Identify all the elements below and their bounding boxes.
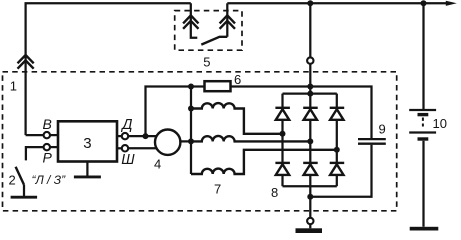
ground bar bottom center	[296, 228, 323, 233]
switch 5 blade (open contact)	[201, 37, 227, 45]
regulator box 3	[58, 121, 117, 161]
wire D to rotor	[128, 135, 156, 137]
connector arrow (double chevron) on left wire	[18, 55, 34, 69]
svg-text:9: 9	[379, 122, 386, 137]
stub to ground	[309, 224, 311, 228]
bridge column 2 wire (output line)	[309, 3, 311, 57]
bridge column 3 wire	[336, 94, 338, 108]
junction dot D riser	[143, 133, 149, 139]
svg-text:В: В	[43, 116, 52, 132]
svg-text:Д: Д	[120, 117, 132, 133]
wire top bus left segment	[26, 3, 191, 135]
diode VD6 (lower, column 3)	[330, 163, 345, 175]
svg-text:“Л / З”: “Л / З”	[32, 173, 67, 187]
terminal Sh circle	[122, 145, 128, 151]
capacitor 9	[358, 139, 386, 144]
stator winding 7 phase 1	[191, 103, 283, 134]
switch 5 left lead with chevron	[191, 3, 198, 37]
stator neutral bus	[190, 87, 192, 175]
junction dot coil 2	[188, 138, 194, 144]
ground of box 3	[86, 162, 88, 177]
bridge column 1 wire	[281, 94, 283, 108]
dashed box 5 (ignition switch)	[175, 11, 242, 51]
svg-text:4: 4	[154, 157, 161, 172]
wire capacitor bottom to output bottom	[310, 145, 371, 197]
junction dot phase 3 tap	[334, 147, 340, 153]
rotor (field winding) circle 4	[155, 130, 180, 155]
wire top bus right segment	[227, 2, 447, 4]
wire output to capacitor top	[310, 87, 371, 139]
svg-text:2: 2	[9, 172, 16, 187]
svg-text:10: 10	[433, 116, 447, 131]
wire D riser to resistor line	[146, 87, 205, 137]
output terminal circle top	[307, 57, 313, 63]
svg-text:6: 6	[234, 72, 241, 87]
svg-text:3: 3	[83, 135, 91, 152]
junction dot battery branch	[421, 0, 427, 6]
junction dot top wire B+	[307, 0, 313, 6]
wire rotor to stator bus	[179, 140, 191, 142]
arrowhead right end of top bus	[446, 1, 457, 6]
svg-text:7: 7	[214, 182, 221, 197]
stator winding 7 phase 2	[191, 136, 310, 141]
terminal D circle	[122, 133, 128, 139]
switch 2 blade	[16, 167, 24, 185]
svg-text:1: 1	[10, 78, 17, 93]
wire Sh to rotor	[128, 147, 156, 149]
junction dot output bottom	[307, 194, 313, 200]
terminal B circle	[44, 132, 50, 138]
stub box to D	[117, 135, 122, 137]
resistor 6	[205, 81, 231, 91]
diode VD2 (upper, column 2)	[303, 108, 318, 120]
rectifier bottom bus	[283, 185, 337, 187]
ground of switch 2	[11, 196, 37, 199]
junction dot output/top bus	[307, 91, 313, 97]
dashed enclosure box 1 (alternator)	[3, 72, 397, 211]
wire to terminal B	[26, 134, 44, 136]
junction dot output/resistor wire	[307, 84, 313, 90]
diode VD4 (lower, column 1)	[275, 163, 290, 175]
wire terminal P to switch 2	[26, 147, 43, 160]
diode VD5 (lower, column 2)	[303, 163, 318, 175]
battery branch wire	[422, 3, 424, 109]
svg-text:8: 8	[271, 185, 278, 200]
stub box to Sh	[117, 147, 122, 149]
ground terminal circle bottom	[307, 218, 313, 224]
svg-text:Ш: Ш	[121, 152, 135, 168]
diode VD3 (upper, column 3)	[330, 108, 345, 120]
switch 5 right lead with chevron	[226, 3, 228, 37]
diode VD1 (upper, column 1)	[275, 108, 290, 120]
stub P to box	[50, 146, 58, 148]
wire resistor to output line	[231, 85, 311, 87]
junction dot coil 1	[188, 106, 194, 112]
battery to ground wire	[422, 141, 424, 227]
battery 10	[409, 110, 436, 139]
ground bar right	[410, 227, 439, 231]
junction dot bus top	[188, 84, 194, 90]
stub B to box	[50, 134, 58, 136]
svg-text:5: 5	[203, 54, 210, 69]
switch 2 lower lead	[23, 185, 25, 196]
svg-text:Р: Р	[43, 150, 53, 166]
terminal P circle	[44, 144, 50, 150]
rectifier top bus	[283, 92, 337, 94]
stator winding 7 phase 3	[191, 150, 337, 174]
junction dot phase 2 tap	[307, 138, 313, 144]
junction dot phase 1 tap	[280, 131, 286, 137]
